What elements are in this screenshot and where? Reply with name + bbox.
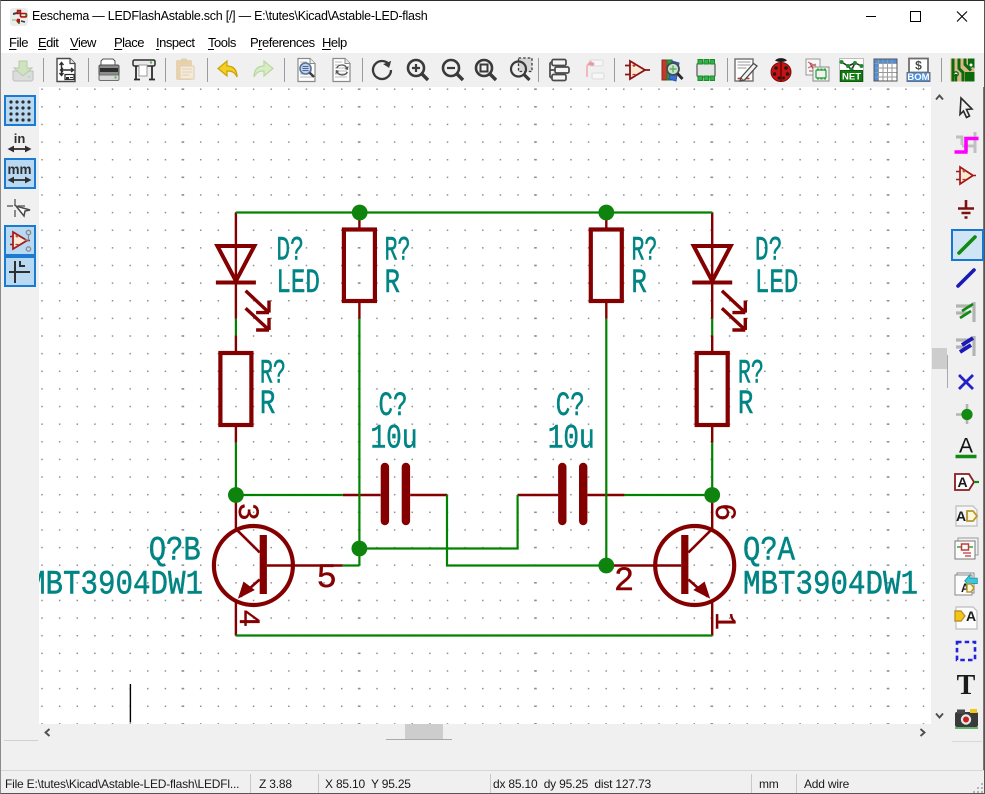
svg-text:in: in xyxy=(14,131,26,146)
svg-text:4: 4 xyxy=(230,609,264,627)
wire mid-left vertical xyxy=(343,319,360,566)
svg-text:5: 5 xyxy=(317,560,337,598)
vertical scrollbar xyxy=(931,87,948,724)
top toolbar xyxy=(1,53,985,87)
capacitor C? right pins xyxy=(518,494,625,496)
svg-text:R: R xyxy=(631,265,647,303)
horizontal scrollbar xyxy=(39,724,931,741)
svg-text:R: R xyxy=(385,265,401,303)
wire bottom rail xyxy=(236,634,712,636)
transistor Q?A pins xyxy=(612,495,712,636)
svg-text:6: 6 xyxy=(706,503,740,521)
resistor R? mid-left pins xyxy=(358,213,360,319)
svg-text:LED: LED xyxy=(276,265,320,303)
wire left resistor to node A xyxy=(235,443,237,495)
junction node 1 xyxy=(352,205,368,221)
svg-text:Q?A: Q?A xyxy=(743,533,795,571)
svg-text:10u: 10u xyxy=(371,421,418,459)
small separators xyxy=(4,740,38,741)
svg-text:MBT3904DW1: MBT3904DW1 xyxy=(39,567,203,605)
wire node A to capacitor C1 xyxy=(236,494,343,496)
resistor R? lower-right body xyxy=(697,353,728,425)
resistor R? lower-left body xyxy=(220,353,251,425)
svg-text:MBT3904DW1: MBT3904DW1 xyxy=(743,567,918,605)
svg-text:2: 2 xyxy=(614,563,634,601)
svg-text:R: R xyxy=(738,386,754,424)
junction node A xyxy=(228,487,244,503)
wire capacitor C1 to node D cross-couple xyxy=(447,495,606,566)
wire left LED to resistor xyxy=(235,319,237,336)
resistor R? lower-right pins xyxy=(711,335,713,442)
svg-text:BOM: BOM xyxy=(907,72,929,83)
wire node C to capacitor C2 xyxy=(359,495,517,549)
wire top rail xyxy=(236,211,712,213)
junction node D xyxy=(598,558,614,574)
svg-text:R: R xyxy=(260,386,276,424)
svg-text:A: A xyxy=(956,508,966,524)
junction node B xyxy=(704,487,720,503)
svg-text:$: $ xyxy=(915,59,922,73)
right toolbar xyxy=(948,87,984,770)
left toolbar xyxy=(1,87,39,770)
capacitor C? left pins xyxy=(343,494,447,496)
svg-text:T: T xyxy=(957,673,976,697)
transistor Q?A symbol xyxy=(655,526,734,605)
wire mid-right vertical xyxy=(606,319,612,566)
resistor R? lower-left pins xyxy=(235,335,237,442)
svg-text:1: 1 xyxy=(706,612,740,630)
resistor R? mid-left body xyxy=(344,230,375,302)
junction node 2 xyxy=(598,205,614,221)
svg-text:Q?B: Q?B xyxy=(149,533,201,571)
svg-text:NET: NET xyxy=(842,72,861,83)
svg-text:mm: mm xyxy=(7,162,31,177)
schematic canvas xyxy=(39,87,932,724)
svg-text:3: 3 xyxy=(229,503,263,521)
LED D? right symbol xyxy=(692,246,745,330)
capacitor C? right plates xyxy=(562,467,583,521)
resistor R? mid-right body xyxy=(591,230,622,302)
transistor Q?B pins xyxy=(236,495,343,636)
junction node C xyxy=(352,541,368,557)
status bar xyxy=(1,770,985,794)
LED D? left symbol xyxy=(216,246,269,330)
transistor Q?B symbol xyxy=(214,526,293,605)
capacitor C? left plates xyxy=(385,467,406,521)
svg-text:LED: LED xyxy=(755,265,799,303)
minimize xyxy=(848,1,894,32)
svg-text:A: A xyxy=(959,436,973,458)
resistor R? mid-right pins xyxy=(605,213,607,319)
title bar xyxy=(1,1,985,32)
maximize xyxy=(892,1,938,32)
menu bar xyxy=(1,32,985,53)
svg-text:A: A xyxy=(966,608,976,624)
LED D? left pins xyxy=(235,213,237,319)
LED D? right pins xyxy=(711,213,713,319)
cursor xyxy=(129,684,131,723)
wire right LED to resistor xyxy=(711,319,713,336)
close xyxy=(939,1,985,32)
app icon xyxy=(10,8,28,26)
svg-text:10u: 10u xyxy=(548,421,595,459)
wire capacitor C2 to node B xyxy=(624,494,712,496)
svg-text:A: A xyxy=(957,474,967,490)
wire right resistor to node B xyxy=(711,443,713,495)
